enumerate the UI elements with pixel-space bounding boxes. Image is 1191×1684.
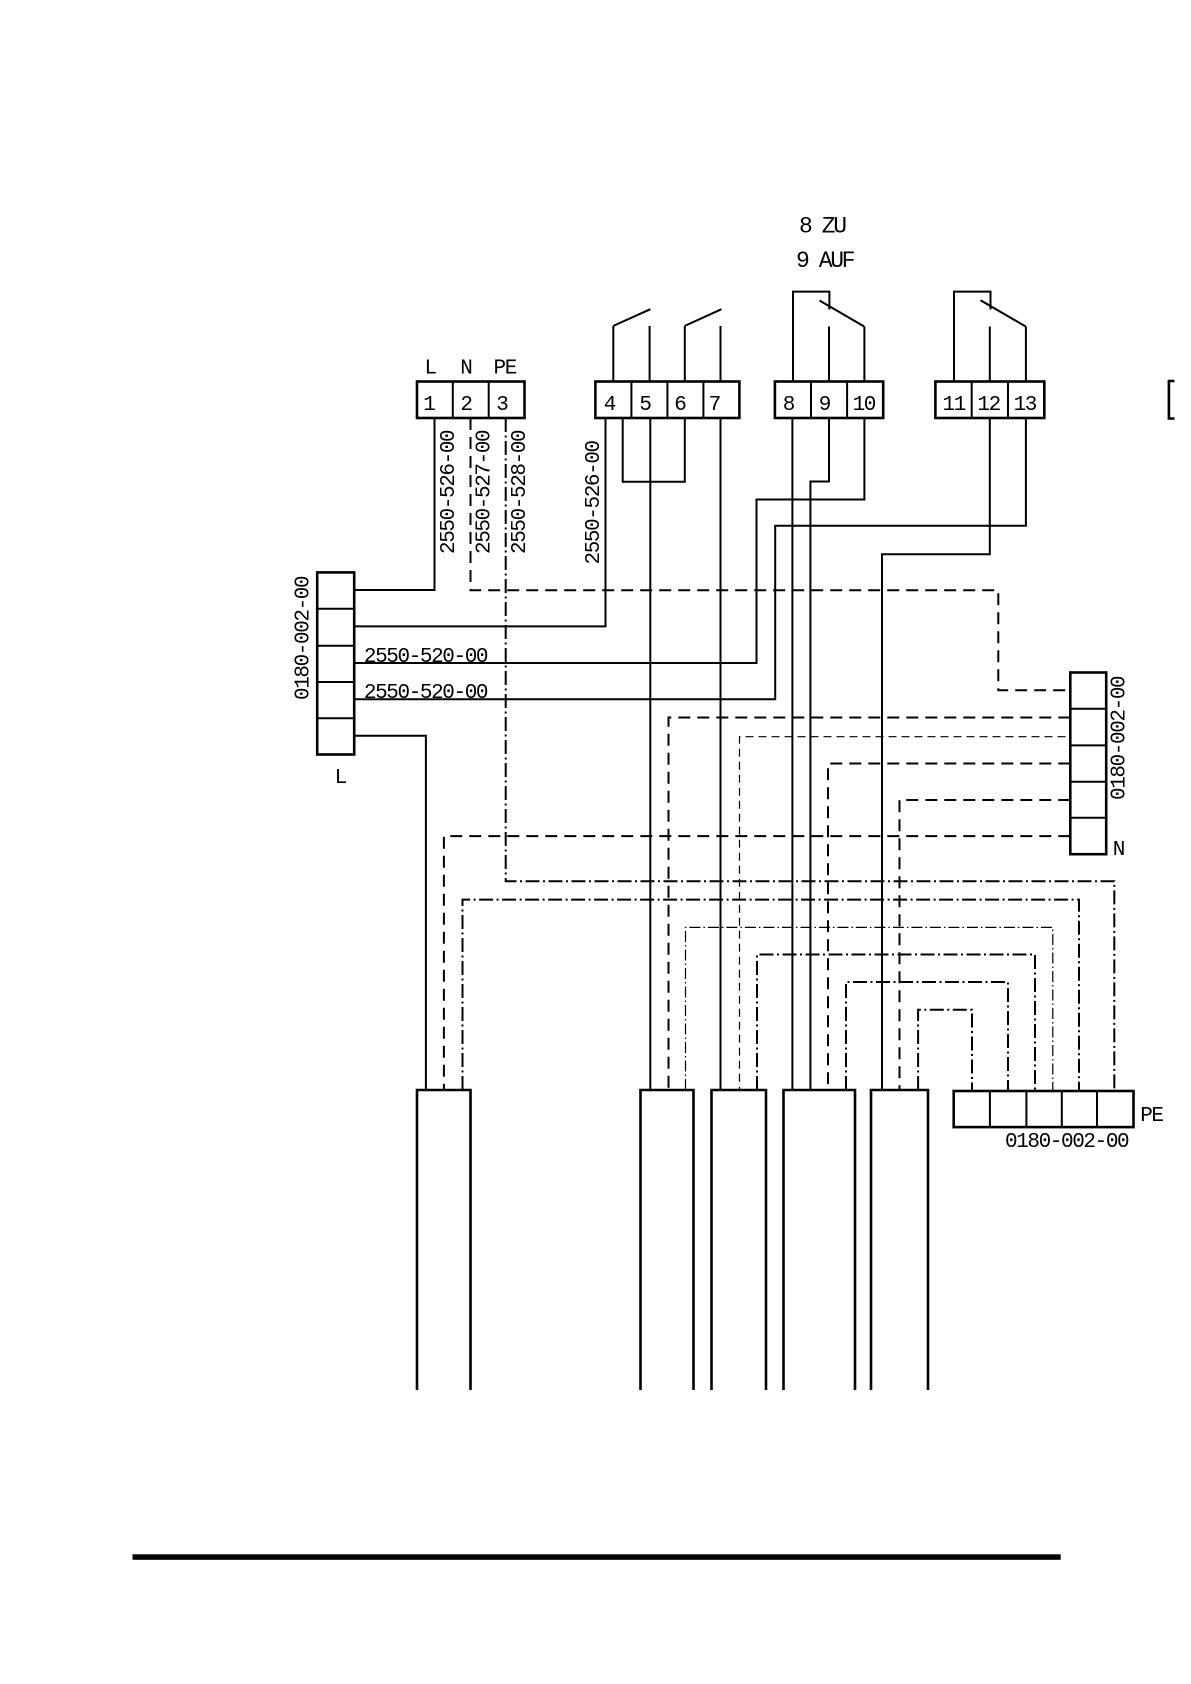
svg-text:2550-520-00: 2550-520-00 [364, 682, 488, 705]
connector plug 1 [417, 1090, 471, 1390]
node label N [460, 358, 471, 381]
wire terminal 8 to connector 4 [791, 418, 793, 1090]
svg-text:8 ZU: 8 ZU [799, 214, 846, 240]
svg-text:9 AUF: 9 AUF [796, 248, 855, 274]
terminal block X3 terminals 8-10 [775, 382, 883, 419]
svg-text:12: 12 [977, 394, 1000, 417]
terminal block X2 terminals 4-7 [595, 382, 739, 419]
node label PE (strip) [1140, 1105, 1163, 1128]
svg-text:5: 5 [639, 394, 651, 417]
wire label 2550-520-00 (terminal 13) [364, 682, 488, 705]
wire label 2550-520-00 (terminal 10) [364, 646, 488, 669]
wire PE connector 2 to strip PE cell3 (thin) [686, 927, 1053, 1091]
node label L [425, 358, 437, 381]
wire label 2550-526-00 (terminal 1) [438, 430, 461, 554]
switch S4 contact 11/12-13 [954, 292, 1026, 382]
svg-text:2550-528-00: 2550-528-00 [509, 430, 532, 554]
label 0180-002-00 (N strip) [1109, 676, 1132, 800]
wire strip N cell2 to connector 2 [669, 718, 1071, 1091]
connector plug 2 [641, 1090, 694, 1390]
terminal strip L (0180-002-00) [317, 572, 354, 754]
label 8 ZU [799, 214, 846, 240]
pin number 11 [943, 394, 966, 417]
pin number 4 [604, 394, 616, 417]
svg-text:N: N [460, 358, 471, 381]
svg-text:2550-520-00: 2550-520-00 [364, 646, 488, 669]
switch S3 contact 8/9-10 [793, 292, 864, 382]
wire strip N cell2 to connector 3 (thin) [740, 737, 1066, 1090]
pin number 5 [639, 394, 651, 417]
svg-text:8: 8 [783, 394, 795, 417]
wire label 2550-526-00 (terminal 4) [583, 440, 606, 564]
label 9 AUF [796, 248, 855, 274]
wire 2550-526-00 terminal 1 to strip L [354, 418, 434, 590]
node label PE [494, 358, 517, 381]
pin number 7 [709, 394, 720, 417]
wire 2550-527-00 terminal 2 to strip N [471, 418, 1071, 690]
svg-text:0180-002-00: 0180-002-00 [293, 576, 316, 700]
svg-text:2550-527-00: 2550-527-00 [474, 430, 497, 554]
label 0180-002-00 (L strip) [293, 576, 316, 700]
wire terminal 12 to connector 5 [882, 418, 990, 1090]
label 0180-002-00 (PE strip) [1005, 1131, 1129, 1154]
svg-text:L: L [425, 358, 437, 381]
node label N (strip) [1113, 839, 1124, 862]
svg-text:4: 4 [604, 394, 616, 417]
svg-text:2550-526-00: 2550-526-00 [583, 440, 606, 564]
wire bridge terminal 4 to terminal 6 [623, 418, 685, 482]
switch S1 contact 4-5 [613, 309, 650, 381]
wire 2550-520-00 terminal 13 to strip L [354, 418, 1026, 699]
connector plug 4 [784, 1090, 856, 1390]
svg-text:1: 1 [423, 394, 435, 417]
connector plug 5 [871, 1090, 928, 1390]
svg-text:2550-526-00: 2550-526-00 [438, 430, 461, 554]
pin number 12 [977, 394, 1000, 417]
svg-text:0180-002-00: 0180-002-00 [1109, 676, 1132, 800]
pin number 1 [423, 394, 435, 417]
wire PE connector 1 to strip PE cell4 [463, 900, 1080, 1091]
pin number 3 [496, 394, 508, 417]
wire strip N cell5 to connector 1 [444, 836, 1070, 1090]
wire terminal 9 to connector 4 [810, 418, 829, 1090]
wire strip N cell3 to connector 4 [828, 764, 1070, 1091]
svg-text:3: 3 [496, 394, 508, 417]
pin number 10 [853, 394, 876, 417]
svg-text:N: N [1113, 839, 1124, 862]
page bracket symbol [1169, 381, 1175, 419]
wire 2550-528-00 terminal 3 to strip PE [506, 418, 1115, 1091]
svg-text:11: 11 [943, 394, 966, 417]
svg-text:PE: PE [494, 358, 517, 381]
switch S2 contact 6-7 [685, 309, 722, 381]
terminal block X1 terminals 1-3 [417, 382, 525, 419]
footer rule [133, 1554, 1061, 1560]
wire PE connector 5 to strip PE cell1 [918, 1010, 972, 1091]
wire PE connector 3 to strip PE cell3 [757, 955, 1035, 1092]
terminal block X4 terminals 11-13 [935, 382, 1044, 419]
svg-text:6: 6 [674, 394, 686, 417]
node label L (strip) [335, 767, 347, 790]
svg-text:7: 7 [709, 394, 720, 417]
pin number 13 [1014, 394, 1037, 417]
svg-text:PE: PE [1140, 1105, 1163, 1128]
svg-text:0180-002-00: 0180-002-00 [1005, 1131, 1129, 1154]
wire label 2550-527-00 (terminal 2) [474, 430, 497, 554]
terminal strip N (0180-002-00) [1070, 673, 1106, 855]
wire terminal 5 to connector 2 [649, 418, 651, 1090]
connector plug 3 [712, 1090, 767, 1390]
pin number 9 [819, 394, 831, 417]
svg-text:2: 2 [460, 394, 472, 417]
svg-text:L: L [335, 767, 347, 790]
terminal strip PE (0180-002-00) [954, 1091, 1134, 1127]
wire terminal 7 to connector 3 [720, 418, 722, 1090]
wire 2550-520-00 terminal 10 to strip L [354, 418, 864, 663]
svg-text:10: 10 [853, 394, 876, 417]
wire PE connector 4 to strip PE cell2 [846, 982, 1008, 1091]
wire strip L to connector 1 [354, 736, 426, 1090]
wire label 2550-528-00 (terminal 3) [509, 430, 532, 554]
pin number 2 [460, 394, 472, 417]
svg-text:9: 9 [819, 394, 831, 417]
svg-text:13: 13 [1014, 394, 1037, 417]
wire 2550-526-00 terminal 4 to strip L [354, 418, 605, 626]
pin number 8 [783, 394, 795, 417]
pin number 6 [674, 394, 686, 417]
wire strip N cell4 to connector 5 [900, 800, 1071, 1090]
